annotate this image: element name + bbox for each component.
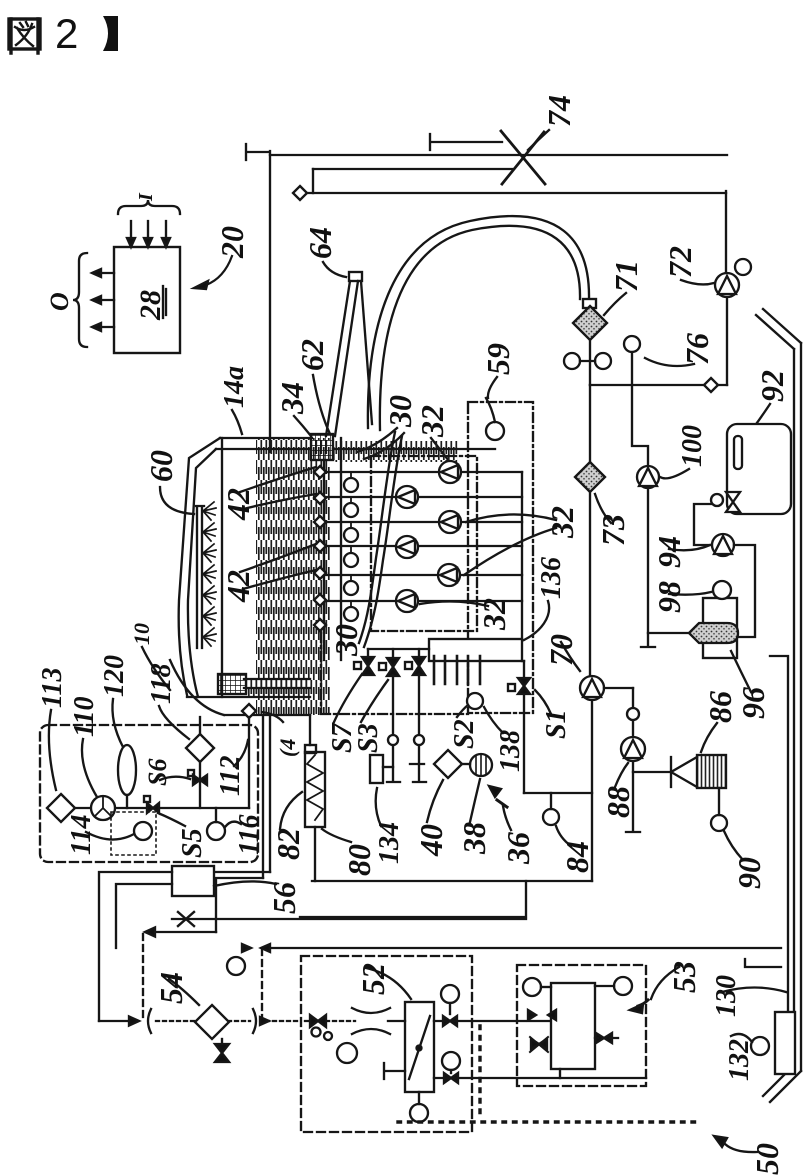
- valve S1: [523, 661, 525, 793]
- svg-text:20: 20: [214, 226, 250, 259]
- pump94 right pipe down: [734, 545, 755, 637]
- pump 72: [715, 273, 739, 297]
- tank inner wall: [221, 438, 223, 697]
- leader 88: [615, 763, 628, 787]
- svg-text:116: 116: [234, 815, 265, 855]
- filter 86: [671, 757, 697, 787]
- dash box B 59: [468, 402, 533, 713]
- top circle valve: [441, 985, 459, 1003]
- leader 96: [731, 651, 751, 692]
- dash box A pumps: [371, 456, 477, 631]
- venturi: [352, 1008, 390, 1034]
- air-break box 136: [429, 639, 522, 661]
- heater 80: [305, 752, 325, 827]
- line into 52: [266, 1020, 300, 1022]
- svg-text:136: 136: [536, 557, 567, 599]
- right pipe 112: [248, 717, 250, 808]
- leader S2: [457, 705, 468, 717]
- diamond 118: [186, 734, 214, 762]
- junction X 74: [501, 131, 545, 184]
- leader 56: [214, 881, 276, 886]
- svg-text:96: 96: [735, 687, 771, 719]
- svg-text:94: 94: [651, 536, 687, 568]
- leader 132: [731, 1034, 752, 1042]
- line y1078: [434, 1077, 646, 1079]
- svg-text:112: 112: [215, 756, 246, 796]
- leader S5: [158, 813, 185, 826]
- long return line y948: [262, 947, 781, 949]
- nozzle circles right column with stems: [350, 472, 352, 607]
- parens and diamond 54: [148, 1009, 256, 1033]
- leaders 42 upper: [240, 467, 316, 509]
- leader 10: [142, 647, 170, 690]
- svg-text:98: 98: [651, 581, 687, 613]
- sensor circle 59: [486, 422, 504, 440]
- svg-text:50: 50: [749, 1143, 785, 1175]
- leader 136: [524, 601, 549, 640]
- leader 90: [724, 831, 743, 860]
- brace left of output arrows: [73, 253, 87, 347]
- leader 92: [754, 404, 770, 427]
- bottom circle: [410, 1104, 428, 1122]
- valve S6: [193, 775, 207, 785]
- diamond 73 stippled: [575, 462, 605, 492]
- svg-text:52: 52: [355, 963, 391, 995]
- svg-text:72: 72: [662, 246, 698, 278]
- pump 110: [91, 796, 115, 820]
- svg-text:54: 54: [153, 972, 189, 1004]
- leader 98: [669, 592, 711, 595]
- hose cap 64 top: [349, 272, 362, 281]
- svg-text:90: 90: [731, 857, 767, 889]
- svg-text:38: 38: [456, 822, 492, 855]
- dashed box 52: [301, 956, 472, 1132]
- capsule 96: [689, 623, 738, 643]
- tank 92: [727, 424, 791, 514]
- leader 73: [595, 494, 611, 523]
- small diamond on line: [704, 378, 718, 392]
- right outer frame: [756, 309, 801, 349]
- connector: [312, 169, 314, 193]
- spray fans: [203, 502, 216, 646]
- circle below venturi: [337, 1043, 357, 1063]
- input arrows into box top: [131, 221, 166, 243]
- brace over input arrows: [118, 200, 180, 214]
- hose leg pair 62: [326, 281, 358, 436]
- diamond 40: [434, 750, 462, 778]
- svg-text:(4: (4: [275, 739, 300, 757]
- svg-text:30: 30: [382, 395, 418, 428]
- svg-text:64: 64: [302, 227, 338, 259]
- svg-text:74: 74: [541, 95, 577, 127]
- horizontal line y385: [590, 384, 727, 386]
- branch to capsule 96: [648, 632, 689, 634]
- svg-text:34: 34: [274, 382, 310, 415]
- thick arrow 36: [497, 800, 507, 807]
- leader 114: [86, 832, 134, 840]
- paired circles sensor: [564, 353, 580, 369]
- pump 100 vertical: [641, 466, 655, 647]
- svg-text:2: 2: [55, 10, 78, 57]
- top T vertical pipe: [246, 144, 270, 452]
- leader 54: [169, 979, 199, 1005]
- dashed box 112: [40, 725, 258, 862]
- leader 112: [234, 740, 248, 766]
- svg-text:32: 32: [414, 405, 450, 438]
- svg-text:138: 138: [495, 730, 526, 772]
- spray manifold 60: [196, 506, 204, 648]
- nozzle pipe verticals: [324, 438, 341, 660]
- leader 100: [660, 469, 689, 478]
- leader 32c: [420, 601, 488, 606]
- inner line S1 bottom: [524, 792, 592, 794]
- right corner down to pump72: [725, 191, 727, 273]
- pump70 down to box: [591, 700, 593, 881]
- pipe rows to pumps: [326, 472, 522, 601]
- double pipe from tank bottom: [263, 715, 270, 878]
- svg-text:134: 134: [374, 822, 405, 864]
- valve arrows into 53: [528, 1010, 556, 1020]
- pipe pump72 down: [726, 297, 728, 385]
- circle 116: [207, 822, 225, 840]
- leader 86: [701, 723, 717, 752]
- tank bottom lines: [187, 679, 310, 715]
- arrow 50: [725, 1144, 757, 1152]
- svg-text:60: 60: [143, 450, 179, 482]
- leader 70: [561, 642, 580, 671]
- svg-text:62: 62: [294, 339, 330, 371]
- svg-text:32: 32: [544, 506, 580, 539]
- leader 32a: [431, 438, 449, 461]
- filter mesh 46: [218, 674, 246, 694]
- svg-text:132: 132: [724, 1039, 755, 1081]
- vertical main 73 line: [589, 385, 591, 462]
- svg-text:84: 84: [559, 841, 595, 873]
- leader 52: [366, 968, 411, 999]
- leader 84: [556, 826, 571, 846]
- svg-text:71: 71: [608, 260, 644, 292]
- box 132: [775, 1012, 795, 1074]
- right arrow valve: [596, 1033, 612, 1043]
- pump 88: [621, 737, 645, 761]
- circle 84: [543, 809, 559, 825]
- lower circle valve: [442, 1052, 460, 1070]
- svg-text:80: 80: [341, 844, 377, 876]
- leader 130: [722, 988, 786, 993]
- top line 1: [270, 154, 727, 156]
- svg-text:S5: S5: [177, 828, 208, 858]
- small valve circle: [627, 708, 639, 720]
- svg-text:S6: S6: [143, 759, 172, 786]
- svg-text:32: 32: [476, 598, 512, 631]
- svg-text:36: 36: [500, 832, 536, 865]
- leader 94: [669, 545, 710, 550]
- solenoid pair in 52: [305, 1020, 355, 1022]
- leader 38: [470, 779, 480, 822]
- svg-text:120: 120: [99, 655, 130, 697]
- inner box lines: [314, 827, 316, 881]
- svg-text:S1: S1: [541, 709, 572, 739]
- svg-text:S2: S2: [449, 719, 480, 749]
- svg-text:56: 56: [266, 882, 302, 914]
- arrow 53: [651, 967, 679, 999]
- big arc 64 inner: [380, 226, 580, 430]
- leader 64: [323, 262, 346, 277]
- drain valve below 54: [221, 1039, 223, 1045]
- dashed box 53: [517, 965, 646, 1086]
- line y932 with arrow: [148, 931, 216, 933]
- heater box 96 assembly: [703, 598, 737, 658]
- stub line with T-end: [430, 134, 502, 150]
- facing arrows on 948: [242, 944, 270, 952]
- pump grid: [396, 461, 461, 612]
- svg-text:82: 82: [270, 828, 306, 860]
- manifold vertical: [521, 472, 523, 639]
- three solenoid valves: [368, 648, 429, 650]
- line 3 with small diamond end: [306, 192, 726, 194]
- right hook of 948: [745, 959, 781, 967]
- line y1021 out of box: [434, 1020, 551, 1022]
- svg-text:92: 92: [754, 370, 790, 402]
- leaders S7 S3: [334, 674, 388, 722]
- line through components: [48, 807, 249, 809]
- leader 71: [604, 293, 626, 315]
- svg-text:76: 76: [679, 333, 715, 365]
- leader 116: [225, 822, 241, 827]
- controller box 28: [114, 247, 180, 353]
- svg-text:110: 110: [69, 697, 100, 737]
- big arc 64 outer: [368, 216, 589, 428]
- drain diamond: [242, 704, 256, 718]
- svg-text:40: 40: [413, 824, 449, 857]
- svg-text:10: 10: [129, 623, 154, 645]
- box 134: [370, 755, 383, 783]
- svg-text:113: 113: [37, 668, 68, 708]
- circle 90: [711, 815, 727, 831]
- inner frame hook: [770, 656, 788, 1012]
- left pipes: [99, 872, 172, 1021]
- svg-text:86: 86: [702, 691, 738, 723]
- tank hatch column: [256, 438, 330, 715]
- label 28 underline: [163, 286, 166, 318]
- leaders 113 110 120 118: [49, 710, 56, 790]
- sensor circle 114b: [134, 822, 152, 840]
- striped ball 38: [470, 754, 492, 776]
- T stub: [384, 1063, 405, 1079]
- line y917 valve: [172, 918, 526, 920]
- svg-text:53: 53: [666, 961, 702, 993]
- tank second tilt line: [188, 449, 216, 697]
- svg-text:S3: S3: [353, 723, 384, 753]
- oval 120: [118, 745, 136, 795]
- tank92 valve: [711, 494, 723, 506]
- pump 70: [580, 676, 604, 700]
- tank hatch top band: [333, 441, 458, 462]
- svg-text:28: 28: [134, 290, 167, 321]
- leader 14a: [232, 410, 242, 434]
- tank floor slope: [170, 660, 224, 715]
- diamond 114: [47, 794, 75, 822]
- svg-text:30: 30: [328, 624, 364, 657]
- svg-text:100: 100: [677, 425, 708, 467]
- vertical 88 line: [626, 688, 640, 832]
- svg-text:O: O: [45, 292, 74, 311]
- circle 76: [624, 336, 640, 352]
- valve drop lines: [387, 674, 426, 782]
- tank outer tilted wall: [179, 438, 220, 695]
- leader S1: [535, 690, 551, 714]
- interior top line: [216, 448, 495, 450]
- dotted row y1122: [398, 1120, 698, 1123]
- leader 138: [484, 707, 503, 733]
- svg-text:114: 114: [66, 815, 97, 855]
- stub to y1078: [559, 1069, 561, 1078]
- leaders 42 lower: [240, 544, 316, 589]
- arc end square to diamond71: [583, 299, 596, 308]
- crossed valve: [530, 1037, 548, 1052]
- label 44 leader: [262, 712, 283, 722]
- leader 59: [488, 377, 497, 398]
- box 52: [405, 1002, 434, 1092]
- pump 94: [712, 534, 734, 556]
- leader 74: [528, 130, 549, 150]
- mesh 34: [311, 434, 333, 460]
- svg-text:118: 118: [146, 664, 177, 704]
- pump 100: [637, 466, 659, 488]
- svg-text:42: 42: [220, 488, 256, 521]
- leader 76: [645, 358, 694, 366]
- box 53: [551, 983, 595, 1069]
- leader 60: [160, 487, 194, 514]
- pump70 right link: [604, 687, 633, 689]
- leaders 32 right: [464, 514, 556, 575]
- diamond end: [293, 186, 307, 200]
- leader 134: [376, 788, 381, 826]
- tank hatch bottom pipe band: [246, 679, 308, 697]
- leader 40: [427, 780, 443, 822]
- dash bottom line: [321, 633, 468, 714]
- leader 72: [681, 280, 714, 284]
- hx 56 box: [172, 866, 214, 896]
- leaders 80 82: [322, 829, 351, 842]
- svg-text:42: 42: [220, 570, 256, 603]
- svg-text:I: I: [135, 192, 157, 202]
- dotted vertical: [478, 1026, 481, 1118]
- diamond 71 stippled: [573, 306, 607, 340]
- leader 34: [294, 416, 311, 436]
- title 図 2 】: [9, 10, 118, 57]
- diamond71 pipe down: [589, 340, 591, 385]
- dotted box: [111, 812, 156, 855]
- dashed verticals: [143, 934, 262, 1021]
- leader 20 arrow: [206, 256, 232, 285]
- pipe from tank92 to pump94: [694, 504, 712, 545]
- leader 62: [313, 375, 330, 434]
- svg-text:88: 88: [600, 786, 636, 818]
- leader S6: [160, 777, 190, 780]
- nozzle diamonds left column: [314, 466, 326, 631]
- circle 98: [713, 581, 731, 599]
- tank top line: [220, 437, 312, 439]
- output arrows from box left: [96, 273, 114, 327]
- valve S5: [147, 803, 159, 813]
- circle near 54: [227, 957, 245, 975]
- svg-text:73: 73: [595, 514, 631, 546]
- svg-text:14a: 14a: [219, 366, 250, 408]
- line 2: [313, 168, 512, 170]
- leader 30a twin curves: [357, 428, 404, 459]
- leaders 30b long twin curves: [359, 432, 395, 643]
- arrow on 1021 line: [99, 1020, 136, 1022]
- circle S2: [467, 693, 483, 709]
- svg-text:130: 130: [711, 975, 742, 1017]
- hose leg single: [361, 281, 372, 424]
- svg-text:70: 70: [543, 634, 579, 666]
- svg-text:59: 59: [480, 343, 516, 375]
